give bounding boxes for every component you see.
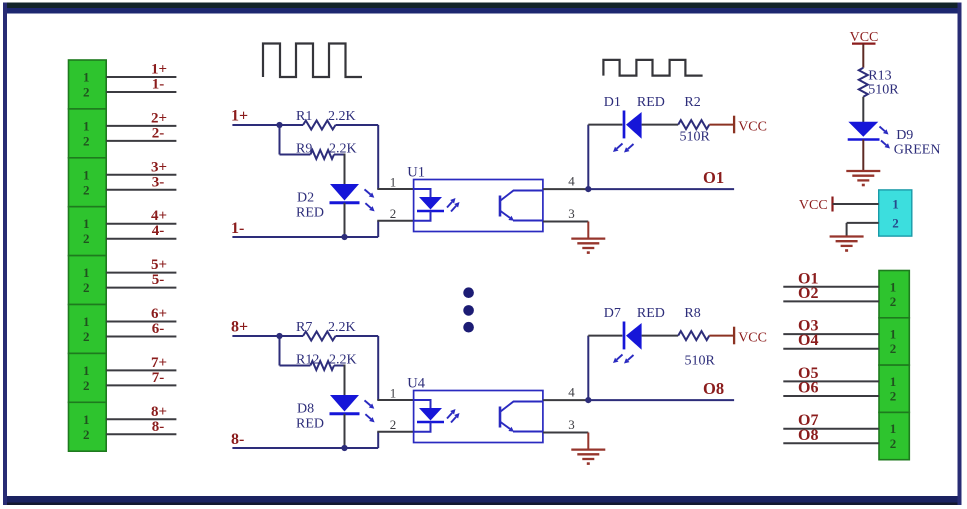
svg-text:1+: 1+ bbox=[151, 62, 167, 78]
svg-text:R7: R7 bbox=[296, 320, 312, 335]
ground (pin 3 of U1) bbox=[587, 222, 589, 240]
svg-text:2: 2 bbox=[83, 329, 90, 344]
svg-text:U1: U1 bbox=[407, 165, 425, 181]
wire pin4 node up to LED D1 bbox=[587, 125, 589, 190]
wire U4 pin 3 bbox=[543, 432, 588, 434]
svg-text:O8: O8 bbox=[703, 379, 724, 398]
junction node pin 4 / O8 bbox=[585, 397, 591, 403]
connector J4 (input terminal block 4) bbox=[69, 207, 107, 256]
svg-text:R12: R12 bbox=[296, 353, 319, 368]
svg-text:2-: 2- bbox=[152, 125, 165, 141]
svg-text:6+: 6+ bbox=[151, 306, 167, 322]
connector J6 (input terminal block 6) bbox=[69, 305, 107, 354]
svg-text:R2: R2 bbox=[684, 95, 700, 110]
svg-text:1: 1 bbox=[83, 412, 90, 427]
svg-text:VCC: VCC bbox=[799, 198, 828, 213]
svg-text:1: 1 bbox=[892, 197, 899, 212]
svg-text:1: 1 bbox=[83, 167, 90, 182]
wire D2 cathode to 1- bbox=[344, 203, 346, 237]
svg-text:RED: RED bbox=[637, 95, 665, 110]
svg-text:GREEN: GREEN bbox=[894, 143, 941, 158]
wire 8+ input bbox=[232, 335, 279, 337]
wire J2 pin 1 (2+) bbox=[106, 125, 176, 127]
power symbol VCC bbox=[733, 327, 735, 345]
svg-text:VCC: VCC bbox=[738, 331, 767, 346]
svg-text:RED: RED bbox=[296, 417, 324, 432]
op-amp U1 optocoupler bbox=[414, 180, 543, 232]
LED D2 RED bbox=[330, 184, 359, 201]
wire O2 to output block bbox=[783, 300, 879, 302]
ground (pin 3 of U4) bbox=[587, 433, 589, 451]
svg-text:1: 1 bbox=[83, 216, 90, 231]
svg-text:2: 2 bbox=[83, 280, 90, 295]
svg-text:1-: 1- bbox=[152, 77, 165, 93]
wire J8 pin 1 (8+) bbox=[106, 418, 176, 420]
svg-text:4+: 4+ bbox=[151, 208, 167, 224]
wire O3 to output block bbox=[783, 333, 879, 335]
wire J6 pin 2 (6-) bbox=[106, 336, 176, 338]
connector J2 (input terminal block 2) bbox=[69, 109, 107, 158]
svg-text:2.2K: 2.2K bbox=[328, 320, 356, 335]
power symbol VCC bbox=[733, 116, 735, 134]
wire O4 to output block bbox=[783, 348, 879, 350]
wire D9 cathode to ground bbox=[862, 140, 864, 172]
wire O8 output bbox=[588, 399, 734, 401]
junction node 8- bbox=[341, 445, 347, 451]
wire J7 pin 2 (7-) bbox=[106, 384, 176, 386]
LED D9 GREEN bbox=[848, 122, 878, 137]
wire J1 pin 1 (1+) bbox=[106, 76, 176, 78]
svg-text:O2: O2 bbox=[798, 285, 818, 302]
svg-text:2: 2 bbox=[892, 215, 899, 230]
wire R9 to LED D2 anode bbox=[334, 154, 345, 156]
wire VCC to JP1 pin 1 bbox=[833, 203, 879, 205]
svg-text:3-: 3- bbox=[152, 174, 165, 190]
svg-text:1: 1 bbox=[890, 374, 897, 389]
svg-text:D1: D1 bbox=[604, 95, 621, 110]
wire D7 to R8 bbox=[642, 335, 679, 337]
wire J4 pin 1 (4+) bbox=[106, 223, 176, 225]
svg-text:2: 2 bbox=[890, 436, 897, 451]
wire U4 pin 4 bbox=[543, 399, 589, 401]
svg-text:4-: 4- bbox=[152, 223, 165, 239]
svg-text:8+: 8+ bbox=[151, 404, 167, 420]
output square-wave signal bbox=[603, 60, 702, 76]
resistor R9 2.2K bbox=[310, 150, 334, 159]
wire 1+ branch down to R9 bbox=[279, 125, 281, 155]
connector J3 (input terminal block 3) bbox=[69, 158, 107, 207]
wire D8 cathode to 8- bbox=[344, 414, 346, 448]
svg-text:5-: 5- bbox=[152, 272, 165, 288]
svg-text:1: 1 bbox=[83, 118, 90, 133]
ground (JP1 pin 2) bbox=[830, 235, 864, 237]
svg-text:U4: U4 bbox=[407, 376, 425, 392]
connector P4 (output terminal block 4) bbox=[879, 412, 909, 459]
svg-text:2+: 2+ bbox=[151, 110, 167, 126]
svg-text:D9: D9 bbox=[896, 128, 913, 143]
svg-text:2: 2 bbox=[83, 231, 90, 246]
junction node pin 4 / O1 bbox=[585, 186, 591, 192]
wire R1 to U pin 1 bbox=[336, 124, 379, 126]
wire J8 pin 2 (8-) bbox=[106, 433, 176, 435]
svg-text:O8: O8 bbox=[798, 427, 818, 444]
svg-text:1: 1 bbox=[890, 327, 897, 342]
LED D8 RED bbox=[330, 395, 359, 412]
wire U1 pin 4 bbox=[543, 188, 589, 190]
svg-text:1: 1 bbox=[890, 421, 897, 436]
wire U1 pin 3 bbox=[543, 221, 588, 223]
svg-text:1: 1 bbox=[390, 386, 397, 401]
svg-text:1+: 1+ bbox=[231, 108, 248, 125]
resistor R2 510R bbox=[678, 120, 709, 129]
wire O7 to output block bbox=[783, 428, 879, 430]
wire 1- return bbox=[232, 236, 378, 238]
wire R2 to VCC bbox=[709, 124, 734, 126]
svg-text:3: 3 bbox=[568, 417, 575, 432]
connector J8 (input terminal block 8) bbox=[69, 402, 107, 451]
wire J5 pin 2 (5-) bbox=[106, 287, 176, 289]
svg-text:3: 3 bbox=[568, 206, 575, 221]
svg-text:510R: 510R bbox=[868, 83, 899, 98]
wire R8 to VCC bbox=[709, 335, 734, 337]
svg-text:1: 1 bbox=[890, 279, 897, 294]
LED D9 emission arrows bbox=[880, 127, 885, 132]
resistor R13 510R bbox=[859, 68, 868, 97]
svg-text:1: 1 bbox=[390, 175, 397, 190]
wire O1 to output block bbox=[783, 286, 879, 288]
svg-text:2: 2 bbox=[390, 206, 397, 221]
wire J1 pin 2 (1-) bbox=[106, 91, 176, 93]
svg-text:D2: D2 bbox=[297, 191, 314, 206]
svg-text:O1: O1 bbox=[703, 168, 724, 187]
wire O8 to output block bbox=[783, 442, 879, 444]
wire J4 pin 2 (4-) bbox=[106, 238, 176, 240]
svg-text:2: 2 bbox=[83, 133, 90, 148]
svg-text:2: 2 bbox=[83, 182, 90, 197]
LED D8 emission arrows bbox=[365, 400, 371, 405]
svg-text:7-: 7- bbox=[152, 370, 165, 386]
ground (D9) bbox=[846, 170, 880, 172]
connector JP1 power terminal bbox=[879, 190, 912, 236]
connector P3 (output terminal block 3) bbox=[879, 365, 909, 412]
wire O5 to output block bbox=[783, 380, 879, 382]
svg-text:RED: RED bbox=[637, 306, 665, 321]
svg-text:2: 2 bbox=[890, 341, 897, 356]
ellipsis dots (channels 2..7 omitted) bbox=[463, 287, 474, 298]
svg-text:R8: R8 bbox=[684, 306, 700, 321]
LED D2 emission arrows bbox=[365, 189, 371, 194]
svg-text:1: 1 bbox=[83, 363, 90, 378]
wire 8- return bbox=[232, 447, 378, 449]
wire J2 pin 2 (2-) bbox=[106, 140, 176, 142]
connector J7 (input terminal block 7) bbox=[69, 353, 107, 402]
svg-text:VCC: VCC bbox=[738, 120, 767, 135]
svg-text:1: 1 bbox=[83, 70, 90, 85]
svg-text:510R: 510R bbox=[680, 130, 711, 145]
resistor R1 2.2K bbox=[280, 124, 304, 126]
svg-text:2: 2 bbox=[890, 389, 897, 404]
svg-text:7+: 7+ bbox=[151, 355, 167, 371]
svg-text:2: 2 bbox=[390, 417, 397, 432]
svg-text:2: 2 bbox=[890, 294, 897, 309]
wire O1 output bbox=[588, 188, 734, 190]
wire 8- to U pin 2 bbox=[377, 432, 379, 448]
junction node 1+ bbox=[276, 122, 282, 128]
svg-text:D7: D7 bbox=[604, 306, 621, 321]
svg-text:O4: O4 bbox=[798, 332, 818, 349]
connector P2 (output terminal block 2) bbox=[879, 318, 909, 365]
wire JP1 pin 2 to ground bbox=[847, 222, 879, 224]
svg-text:4: 4 bbox=[568, 385, 575, 400]
LED D7 emission arrows bbox=[617, 355, 623, 360]
svg-text:3+: 3+ bbox=[151, 159, 167, 175]
input square-wave signal bbox=[263, 44, 362, 78]
svg-text:R9: R9 bbox=[296, 142, 312, 157]
svg-text:5+: 5+ bbox=[151, 257, 167, 273]
wire R7 to U pin 1 bbox=[336, 335, 379, 337]
svg-text:O6: O6 bbox=[798, 380, 818, 397]
resistor R8 510R bbox=[678, 331, 709, 340]
svg-text:8+: 8+ bbox=[231, 319, 248, 336]
svg-text:2: 2 bbox=[83, 378, 90, 393]
wire J3 pin 2 (3-) bbox=[106, 189, 176, 191]
connector J5 (input terminal block 5) bbox=[69, 256, 107, 305]
svg-text:D8: D8 bbox=[297, 402, 314, 417]
svg-text:1: 1 bbox=[83, 314, 90, 329]
svg-text:R1: R1 bbox=[296, 109, 312, 124]
wire 8+ branch down to R12 bbox=[279, 336, 281, 366]
wire J7 pin 1 (7+) bbox=[106, 369, 176, 371]
LED D1 RED bbox=[623, 111, 626, 139]
svg-text:RED: RED bbox=[296, 206, 324, 221]
connector P1 (output terminal block 1) bbox=[879, 271, 909, 318]
svg-text:8-: 8- bbox=[231, 431, 244, 448]
connector J1 (input terminal block 1) bbox=[69, 60, 107, 109]
wire R13 to D9 bbox=[862, 97, 864, 122]
junction node 1- bbox=[341, 234, 347, 240]
svg-text:8-: 8- bbox=[152, 419, 165, 435]
svg-text:2: 2 bbox=[83, 85, 90, 100]
wire J3 pin 1 (3+) bbox=[106, 174, 176, 176]
LED D1 emission arrows bbox=[617, 144, 623, 149]
wire D1 to R2 bbox=[642, 124, 679, 126]
wire J6 pin 1 (6+) bbox=[106, 321, 176, 323]
resistor R7 2.2K bbox=[280, 335, 304, 337]
wire O6 to output block bbox=[783, 395, 879, 397]
svg-text:6-: 6- bbox=[152, 321, 165, 337]
wire pin4 node up to LED D7 bbox=[587, 336, 589, 401]
svg-text:2.2K: 2.2K bbox=[328, 109, 356, 124]
svg-text:R13: R13 bbox=[868, 69, 891, 84]
LED D7 RED bbox=[623, 322, 626, 350]
junction node 8+ bbox=[276, 333, 282, 339]
svg-text:1-: 1- bbox=[231, 220, 244, 237]
svg-text:510R: 510R bbox=[685, 354, 716, 369]
wire R12 to LED D8 anode bbox=[334, 365, 345, 367]
svg-text:2: 2 bbox=[83, 427, 90, 442]
wire 1+ input bbox=[232, 124, 279, 126]
svg-text:1: 1 bbox=[83, 265, 90, 280]
wire 1- to U pin 2 bbox=[377, 221, 379, 237]
wire J5 pin 1 (5+) bbox=[106, 272, 176, 274]
resistor R12 2.2K bbox=[310, 361, 334, 370]
svg-text:4: 4 bbox=[568, 174, 575, 189]
op-amp U4 optocoupler bbox=[414, 391, 543, 443]
